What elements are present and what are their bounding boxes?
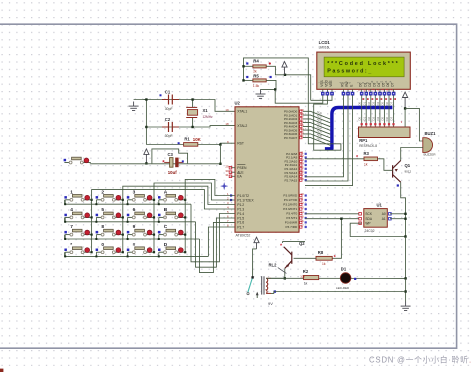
svg-text:5: 5 xyxy=(101,207,104,213)
eeprom U1 24C02 body xyxy=(364,209,388,228)
svg-text:10uf: 10uf xyxy=(168,170,177,175)
wire P0 bit 7 to bus xyxy=(303,138,330,146)
svg-text:C3: C3 xyxy=(168,152,174,157)
push-button keypad 7 xyxy=(64,229,91,236)
wire bus to RP1 pin 6 xyxy=(383,108,385,128)
eeprom U1 left pin markers xyxy=(359,213,362,225)
push-button keypad 9 xyxy=(127,229,154,236)
svg-text:8: 8 xyxy=(101,224,104,230)
wire keypad column 4 xyxy=(184,200,186,252)
eeprom U1 right pin markers xyxy=(389,213,392,221)
mcu U2 left pin labels xyxy=(237,110,254,230)
svg-text:10K: 10K xyxy=(300,275,305,279)
svg-text:D5: D5 xyxy=(380,117,384,121)
svg-text:P1.3: P1.3 xyxy=(237,207,244,211)
svg-text:10K: 10K xyxy=(193,137,202,142)
svg-text:C1: C1 xyxy=(165,89,171,94)
wire bus to RP1 pin 4 xyxy=(374,108,376,128)
resistor R2 xyxy=(304,276,319,280)
svg-text:EA: EA xyxy=(237,175,242,179)
svg-text:SCK: SCK xyxy=(365,212,372,216)
wire P0 bit 3 to bus xyxy=(303,123,330,131)
lcd LCD1 LM016L body xyxy=(317,52,411,89)
wire bus to RP1 pin 5 xyxy=(379,108,381,128)
svg-text:E: E xyxy=(350,85,354,87)
wire keypad column 1 xyxy=(91,200,93,252)
svg-text:18: 18 xyxy=(225,122,229,126)
svg-text:U2: U2 xyxy=(235,101,241,106)
wire P0 bit 5 to bus xyxy=(303,130,330,138)
wire LCD VSS to ground net xyxy=(275,89,323,103)
mcu U2 AT89C52 body xyxy=(235,107,299,232)
wire bus to RP1 pin 2 xyxy=(365,108,367,128)
transistor Q2 xyxy=(284,247,292,269)
svg-text:R3: R3 xyxy=(364,151,370,156)
wire +5V to relay switch xyxy=(253,249,257,263)
wire LCD VDD down xyxy=(314,96,341,150)
wire LCD VEE to divider xyxy=(311,96,332,100)
svg-text:D5: D5 xyxy=(380,102,384,106)
svg-text:RESPACK-8: RESPACK-8 xyxy=(359,144,377,148)
ground at crystal xyxy=(129,102,139,111)
svg-text:D4: D4 xyxy=(376,101,380,105)
transistor Q1 9012 xyxy=(393,161,401,183)
push-button keypad 1 xyxy=(64,195,91,202)
svg-text:D6: D6 xyxy=(385,116,389,120)
wire U1 WP loop xyxy=(350,223,405,236)
svg-text:P2.7/A15: P2.7/A15 xyxy=(284,178,297,182)
wire net down to LED rail xyxy=(405,237,407,279)
wire keypad row bus 2 xyxy=(65,217,196,221)
wire LCD D4 to bus xyxy=(379,96,381,108)
svg-text:.: . xyxy=(469,356,471,365)
wire LCD D6 to bus xyxy=(388,96,390,108)
wire P0 bit 2 to bus xyxy=(303,119,330,127)
svg-text:D7: D7 xyxy=(390,116,394,120)
wire U1 A0 to net xyxy=(390,213,406,215)
wire keypad col to P1.0 xyxy=(185,179,235,199)
svg-text:1k: 1k xyxy=(364,162,368,166)
wire bus to RP1 pin 8 xyxy=(393,108,395,128)
svg-text:29: 29 xyxy=(225,164,229,168)
svg-text:D0: D0 xyxy=(358,101,362,105)
wire keypad row to P1.4 xyxy=(191,204,235,262)
push-button keypad 8 xyxy=(96,229,123,236)
wire keypad row to P1.7 xyxy=(208,227,235,256)
bus P0 to LCD data bus xyxy=(325,108,393,149)
wire XTAL1 net top xyxy=(134,99,193,101)
svg-text:P1.4: P1.4 xyxy=(237,212,244,216)
mcu U2 right pin numbers xyxy=(300,108,304,228)
wire keypad row to P1.6 xyxy=(200,222,236,272)
svg-text:LED-RED: LED-RED xyxy=(336,286,350,290)
wire LCD D2 to bus xyxy=(370,96,372,108)
wire buzzer to Q1 emitter xyxy=(401,148,423,161)
svg-text:R5: R5 xyxy=(253,73,259,78)
push-button keypad A xyxy=(158,195,185,202)
svg-text:P1.0/T2: P1.0/T2 xyxy=(237,194,249,198)
wire R5 right to ground xyxy=(261,80,277,89)
svg-text:D1: D1 xyxy=(362,117,366,121)
svg-text:X1: X1 xyxy=(203,108,209,113)
mcu U2 P1.0 P1.1 blue markers xyxy=(230,194,232,196)
ground bottom right xyxy=(401,302,411,311)
push-button keypad D xyxy=(158,247,185,254)
wire XTAL2 net xyxy=(146,126,192,128)
eeprom U1 pin labels xyxy=(365,212,385,225)
push-button keypad 2 xyxy=(96,195,123,202)
mcu U2 left pin numbers xyxy=(225,108,229,228)
svg-text:A: A xyxy=(164,189,168,195)
mcu U2 left pin stubs PSEN ALE EA xyxy=(229,166,235,177)
capacitor C2 xyxy=(162,122,179,132)
resistor R4 xyxy=(253,65,266,68)
svg-text:P3.5/T1: P3.5/T1 xyxy=(286,216,297,220)
svg-text:30pF: 30pF xyxy=(165,134,173,138)
svg-text:P3.3/INT1: P3.3/INT1 xyxy=(283,207,297,211)
svg-text:P1.1/T2EX: P1.1/T2EX xyxy=(237,198,254,202)
wire keypad col to P1.2 xyxy=(123,186,235,204)
power +5V arrow at LCD xyxy=(282,62,287,75)
svg-text:D2: D2 xyxy=(367,116,371,120)
svg-text:P3.7/RD: P3.7/RD xyxy=(285,225,297,229)
wire keypad row bus 1 xyxy=(65,200,191,204)
svg-text:P3.4/T0: P3.4/T0 xyxy=(286,212,297,216)
svg-text:A1: A1 xyxy=(382,217,386,221)
push-button keypad 5 xyxy=(96,212,123,219)
svg-text:3: 3 xyxy=(133,189,136,195)
wire R5 left xyxy=(244,79,253,81)
relay RL2 coil xyxy=(262,276,271,294)
svg-text:D3: D3 xyxy=(371,102,375,106)
wire U1 A1 to net xyxy=(390,218,406,220)
wire R1 right to RST xyxy=(198,144,221,146)
wire LCD D1 to bus xyxy=(365,96,367,108)
wire keypad row bus 3 xyxy=(65,235,200,239)
svg-text:P3.1/TXD: P3.1/TXD xyxy=(284,198,298,202)
wire P3.5 to U1 SDA xyxy=(305,218,359,220)
wire R4 left xyxy=(244,65,253,67)
svg-text:12MHz: 12MHz xyxy=(203,115,214,119)
lcd pin name labels xyxy=(320,79,395,86)
svg-text:D3: D3 xyxy=(371,117,375,121)
svg-text:*: * xyxy=(70,242,72,248)
svg-text:6: 6 xyxy=(133,207,136,213)
relay switch contact xyxy=(247,263,259,298)
svg-text:9V: 9V xyxy=(268,301,273,306)
svg-text:LCD1: LCD1 xyxy=(319,40,331,45)
relay RL2 leader line xyxy=(278,268,287,274)
watermark corner mark xyxy=(0,369,3,372)
power +5V arrow below MCU xyxy=(254,237,259,249)
svg-text:D0: D0 xyxy=(358,116,362,120)
ground below divider xyxy=(256,89,266,98)
svg-text:2: 2 xyxy=(101,189,104,195)
resistor R5 xyxy=(253,79,266,82)
push-button keypad # xyxy=(127,247,154,254)
resistor R8 xyxy=(316,256,332,260)
svg-text:0: 0 xyxy=(101,242,104,248)
svg-text:LM016L: LM016L xyxy=(319,46,331,50)
svg-text:D1: D1 xyxy=(341,267,347,272)
svg-text:P3.0/RXD: P3.0/RXD xyxy=(283,194,298,198)
wire R4 right to VEE net xyxy=(266,66,311,100)
mcu U2 right pin marker squares xyxy=(300,110,307,228)
svg-text:RL2: RL2 xyxy=(269,262,278,267)
wire Q2 base to R8 xyxy=(294,257,316,259)
svg-text:P1.5: P1.5 xyxy=(237,216,244,220)
svg-text:U1: U1 xyxy=(377,203,383,208)
mcu U2 right pin labels xyxy=(283,110,298,230)
push-button keypad * xyxy=(64,247,91,254)
resistor R3 1k xyxy=(364,157,378,161)
capacitor C1 xyxy=(162,95,179,105)
push-button reset (left) xyxy=(64,157,91,164)
wire P2 to R3 xyxy=(305,158,364,160)
svg-text:4: 4 xyxy=(70,207,73,213)
power +5V arrow at reset xyxy=(144,149,149,164)
wire Q1 collector down xyxy=(401,182,406,236)
wire main LED rail xyxy=(266,277,405,279)
svg-text:BUZ1: BUZ1 xyxy=(425,131,437,136)
wire coil to rail xyxy=(271,277,285,279)
mcu U2 PSEN ALE overbar xyxy=(237,165,245,174)
lcd pin number labels xyxy=(319,80,393,83)
wire +5V to RP1 common xyxy=(404,108,406,127)
svg-text:1.5k: 1.5k xyxy=(253,84,260,88)
svg-text:C2: C2 xyxy=(165,117,171,122)
wire keypad col to P1.1 xyxy=(154,183,235,200)
origin marker xyxy=(221,183,228,190)
svg-text:XTAL1: XTAL1 xyxy=(237,110,247,114)
wire RST down to button net xyxy=(219,145,221,164)
wire LCD D3 to bus xyxy=(374,96,376,108)
svg-text:RP1: RP1 xyxy=(359,138,368,143)
wire keypad column 3 xyxy=(153,200,155,252)
svg-text:P3.6/WR: P3.6/WR xyxy=(285,221,298,225)
wire to XTAL2 pin xyxy=(193,126,235,127)
capacitor C3 electrolytic xyxy=(164,158,183,168)
svg-text:1: 1 xyxy=(70,189,73,195)
svg-text:Q1: Q1 xyxy=(405,163,411,168)
svg-text:19: 19 xyxy=(225,108,229,112)
svg-text:R4: R4 xyxy=(253,59,259,64)
svg-text:AT89C52: AT89C52 xyxy=(236,234,251,238)
svg-text:R8: R8 xyxy=(318,250,324,255)
lcd pin stubs and blue terminals xyxy=(321,89,395,96)
svg-text:P0.7/AD7: P0.7/AD7 xyxy=(284,136,298,140)
None xyxy=(403,92,408,108)
push-button keypad B xyxy=(158,212,185,219)
wire Q2 collector stub xyxy=(283,242,305,243)
wire relay coil return rail xyxy=(271,292,406,294)
wire LCD RW to P2.7 xyxy=(305,96,348,181)
push-button keypad 4 xyxy=(64,212,91,219)
svg-text:#: # xyxy=(133,242,136,248)
wire keypad row to P1.5 xyxy=(196,218,236,267)
wire divider loop down xyxy=(244,58,341,150)
wire keypad column 2 xyxy=(122,200,124,252)
wire P0 bit 0 to bus xyxy=(303,111,330,119)
buzzer BUZ1 xyxy=(423,138,433,153)
svg-text:D4: D4 xyxy=(376,116,380,120)
wire button to RST net xyxy=(90,163,221,165)
wire into RST pin xyxy=(220,143,235,144)
push-button keypad 0 xyxy=(96,247,123,254)
wire keypad col to P1.3 xyxy=(92,190,235,209)
svg-text:R1: R1 xyxy=(184,137,190,142)
lcd D pin red numbers xyxy=(359,88,394,91)
wire P0 bit 6 to bus xyxy=(303,134,330,142)
lcd green screen xyxy=(324,57,404,77)
wire LCD E xyxy=(305,96,353,186)
resistor R1 10K xyxy=(184,143,198,147)
push-button keypad C xyxy=(158,229,185,236)
wire SDA net down to R8 xyxy=(332,219,341,259)
svg-text:XTAL2: XTAL2 xyxy=(237,124,247,128)
svg-text:WP: WP xyxy=(365,221,370,225)
push-button keypad 6 xyxy=(127,212,154,219)
svg-text:D6: D6 xyxy=(385,101,389,105)
wire loop over C3 xyxy=(152,149,188,164)
svg-text:P1.6: P1.6 xyxy=(237,221,244,225)
wire to buzzer top xyxy=(405,108,423,141)
svg-text:Password:_: Password:_ xyxy=(327,69,372,75)
svg-text:30pF: 30pF xyxy=(165,107,173,111)
wire LCD D0 to bus xyxy=(361,96,363,108)
svg-text:P1.7: P1.7 xyxy=(237,225,244,229)
wire P0 bit 1 to bus xyxy=(303,115,330,123)
svg-text:C: C xyxy=(164,224,168,230)
wire bus to RP1 pin 3 xyxy=(370,108,372,128)
svg-text:24C02: 24C02 xyxy=(365,229,375,233)
wire R3 to Q1 base xyxy=(378,159,393,171)
node marker right of R4 xyxy=(269,62,271,64)
svg-text:1k: 1k xyxy=(322,262,326,266)
svg-text:P1.2: P1.2 xyxy=(237,203,244,207)
svg-text:D7: D7 xyxy=(390,101,394,105)
wire bus to RP1 pin 7 xyxy=(388,108,390,128)
wire R1 left xyxy=(146,144,183,146)
push-button keypad 3 xyxy=(127,195,154,202)
wire vertical C1-C2-R1 xyxy=(145,100,147,145)
svg-text:D: D xyxy=(164,242,168,248)
wire LCD D7 to bus xyxy=(393,96,395,108)
led D1 LED-RED xyxy=(340,273,351,284)
wire C1 left stub xyxy=(144,99,147,101)
svg-text:9: 9 xyxy=(133,224,136,230)
svg-text:D2: D2 xyxy=(367,101,371,105)
svg-text:9012: 9012 xyxy=(405,170,412,174)
svg-text:BUZZER: BUZZER xyxy=(424,152,437,156)
svg-text:A0: A0 xyxy=(382,212,386,216)
wire rail to ground xyxy=(405,278,407,301)
wire P3.4 to U1 SCK xyxy=(305,213,359,215)
crystal X1 xyxy=(186,100,197,128)
wire LCD D5 to bus xyxy=(383,96,385,108)
svg-text:1k: 1k xyxy=(304,282,308,286)
svg-text:B: B xyxy=(164,207,168,213)
wire LCD RS to P2.6 xyxy=(305,96,344,177)
svg-text:PSEN: PSEN xyxy=(237,166,247,170)
svg-text:RST: RST xyxy=(237,142,244,146)
svg-text:SDA: SDA xyxy=(365,217,372,221)
resistor pack RP1 RESPACK-8 body xyxy=(359,127,411,138)
wire keypad row bus 4 xyxy=(65,252,209,256)
wire Q2 emitter to rail xyxy=(284,268,286,278)
svg-text:P3.2/INT0: P3.2/INT0 xyxy=(283,203,297,207)
wire bus to RP1 pin 1 xyxy=(361,108,363,128)
wire to XTAL1 pin xyxy=(193,100,235,112)
wire P0 bit 4 to bus xyxy=(303,126,330,134)
svg-text:31: 31 xyxy=(225,173,229,177)
svg-text:D1: D1 xyxy=(362,102,366,106)
svg-text:7: 7 xyxy=(70,224,73,230)
svg-text:R2: R2 xyxy=(303,269,309,274)
svg-text:CSDN @一个小小白·聆听: CSDN @一个小小白·聆听 xyxy=(369,355,468,365)
